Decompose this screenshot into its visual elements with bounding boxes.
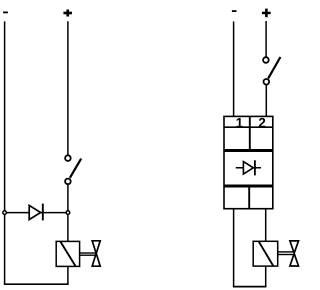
plus supply label (right circuit) bbox=[262, 9, 271, 18]
wire: left negative rail (right circuit) bbox=[233, 22, 235, 117]
minus supply label (left circuit) bbox=[3, 12, 8, 14]
solenoid coil Y1 box (left circuit) bbox=[56, 241, 79, 266]
lower connector box (right circuit) bbox=[224, 187, 273, 209]
wire: bottom return rail (left circuit) bbox=[4, 283, 69, 285]
switch S2 (right circuit) bbox=[263, 57, 280, 85]
wire: connector to solenoid (right circuit) bbox=[265, 209, 267, 242]
terminal label 1 bbox=[237, 118, 243, 127]
terminal block box with terminals 1 and 2 bbox=[224, 116, 273, 149]
valve symbol top triangle (right circuit) bbox=[290, 241, 299, 253]
wire: connector to bottom rail left (right circuit) bbox=[233, 209, 235, 287]
valve symbol bottom triangle (left circuit) bbox=[92, 253, 100, 266]
valve symbol bottom triangle (right circuit) bbox=[290, 254, 299, 267]
wire: switch to solenoid (left circuit) bbox=[67, 185, 69, 242]
solenoid coil Y1 diagonal (left circuit) bbox=[61, 242, 76, 266]
wire: left negative rail (left circuit) bbox=[4, 21, 6, 284]
plus supply label (left circuit) bbox=[63, 10, 72, 17]
wire: positive rail upper segment (right circuit) bbox=[265, 21, 267, 57]
node: junction on negative rail bbox=[3, 211, 7, 215]
wire: bottom return rail (right circuit) bbox=[233, 286, 267, 288]
valve symbol top triangle (left circuit) bbox=[92, 241, 100, 254]
wire: horizontal diode branch (left circuit) bbox=[5, 212, 68, 214]
wire: solenoid to bottom rail (left circuit) bbox=[67, 266, 69, 284]
wire: solenoid to bottom rail (right circuit) bbox=[265, 266, 267, 287]
minus supply label (right circuit) bbox=[232, 10, 237, 12]
valve actuator link (right circuit) bbox=[278, 252, 294, 255]
diode V1 (left circuit) bbox=[29, 204, 43, 221]
wire: positive rail upper segment (left circuit) bbox=[67, 21, 69, 155]
valve actuator link (left circuit) bbox=[80, 253, 96, 255]
rectifier module box (right circuit) bbox=[224, 151, 273, 185]
node: junction on positive branch bbox=[66, 211, 70, 215]
rectifier diode symbol (right circuit) bbox=[236, 160, 261, 175]
switch S1 (left circuit) bbox=[65, 155, 81, 184]
solenoid coil Y2 box (right circuit) bbox=[253, 241, 278, 266]
wire: switch to terminal block (right circuit) bbox=[265, 85, 267, 116]
solenoid coil Y2 diagonal (right circuit) bbox=[259, 242, 273, 266]
terminal label 2 bbox=[259, 118, 265, 127]
